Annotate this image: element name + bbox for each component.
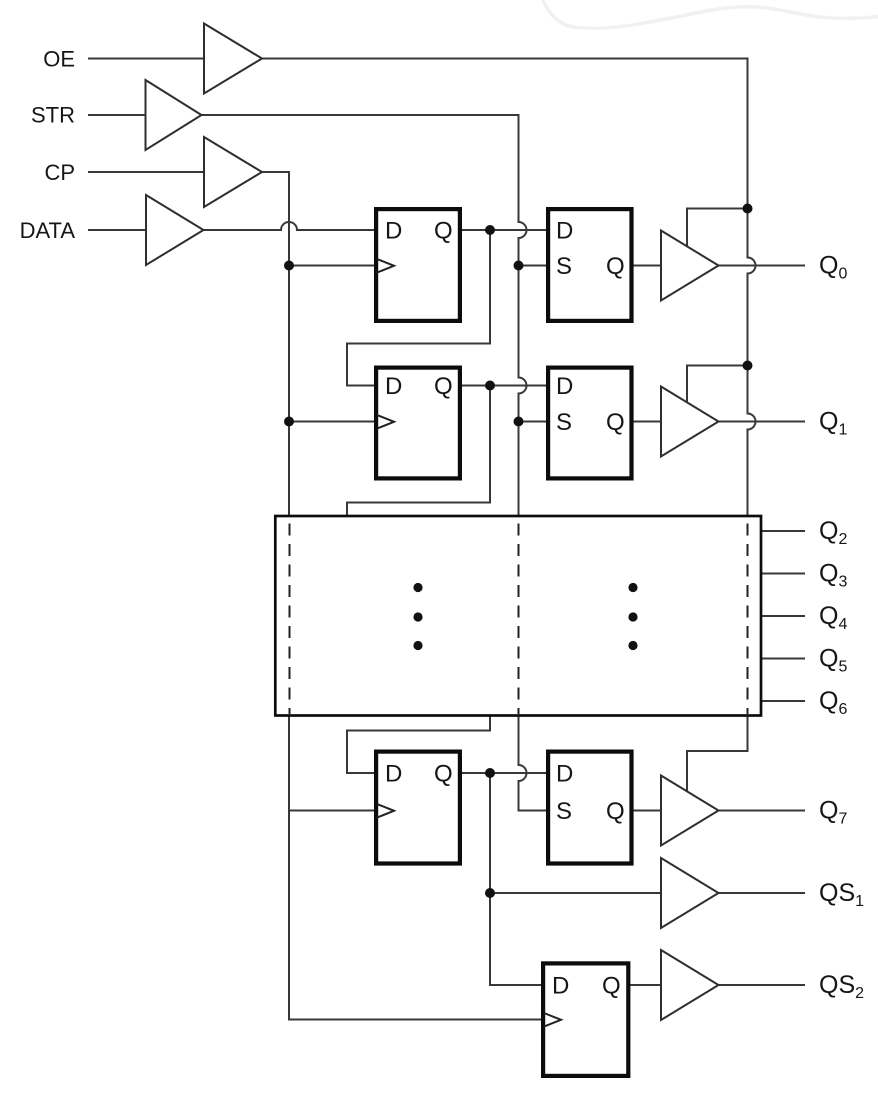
svg-text:Q: Q xyxy=(606,409,625,436)
svg-text:Q: Q xyxy=(606,253,625,280)
svg-text:Q4: Q4 xyxy=(819,602,847,633)
svg-text:D: D xyxy=(385,761,402,788)
svg-text:Q2: Q2 xyxy=(819,517,847,548)
svg-text:Q1: Q1 xyxy=(819,408,847,439)
svg-text:QS2: QS2 xyxy=(819,971,864,1002)
svg-text:Q: Q xyxy=(602,973,621,1000)
svg-text:Q0: Q0 xyxy=(819,252,847,283)
svg-text:CP: CP xyxy=(44,160,75,185)
svg-text:DATA: DATA xyxy=(20,218,76,243)
svg-text:Q3: Q3 xyxy=(819,560,847,591)
svg-text:STR: STR xyxy=(31,103,75,128)
svg-text:D: D xyxy=(556,373,573,400)
svg-text:Q: Q xyxy=(434,761,453,788)
svg-text:Q: Q xyxy=(434,218,453,245)
svg-text:S: S xyxy=(556,253,572,280)
svg-text:D: D xyxy=(385,373,402,400)
svg-text:OE: OE xyxy=(43,47,75,72)
svg-text:Q: Q xyxy=(434,373,453,400)
svg-text:QS1: QS1 xyxy=(819,879,864,910)
svg-text:D: D xyxy=(556,218,573,245)
svg-text:Q5: Q5 xyxy=(819,645,847,676)
svg-text:S: S xyxy=(556,798,572,825)
svg-text:Q6: Q6 xyxy=(819,687,847,718)
svg-text:D: D xyxy=(552,973,569,1000)
svg-text:S: S xyxy=(556,409,572,436)
svg-text:D: D xyxy=(385,218,402,245)
svg-text:D: D xyxy=(556,761,573,788)
svg-text:Q: Q xyxy=(606,798,625,825)
svg-text:Q7: Q7 xyxy=(819,797,847,828)
